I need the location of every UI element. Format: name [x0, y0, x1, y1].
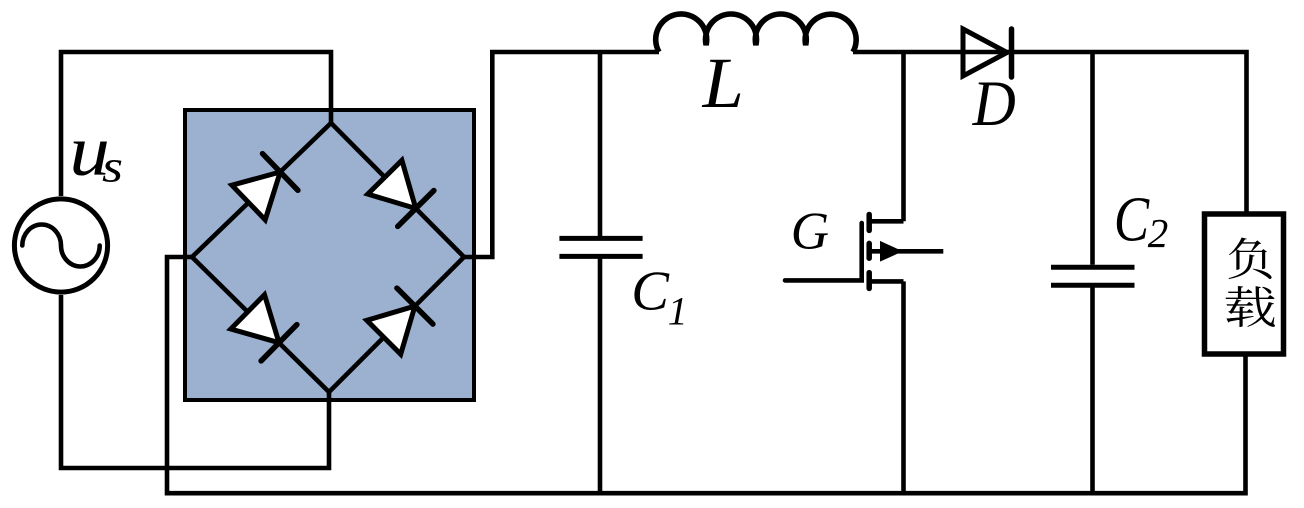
diode D — [963, 29, 1012, 77]
svg-text:C: C — [631, 260, 670, 322]
wire bridge right vertex up to top rail — [464, 52, 659, 257]
inductor L — [656, 14, 856, 52]
svg-text:2: 2 — [1148, 210, 1169, 256]
capacitor C1 top stem — [598, 52, 603, 236]
bridge diode V1 (top-left) — [232, 154, 298, 220]
svg-text:C: C — [1114, 183, 1150, 254]
capacitor C2 — [1051, 267, 1135, 285]
svg-text:s: s — [102, 141, 123, 192]
capacitor C1 bottom stem — [598, 259, 603, 494]
capacitor C2 top stem — [1090, 52, 1095, 265]
AC source u_s — [14, 199, 107, 292]
MOSFET Q1 — [869, 215, 943, 289]
wire source top to bridge top vertex — [61, 52, 331, 196]
load text char zai 载 — [1226, 286, 1275, 327]
wire source bottom to bridge bottom vertex — [61, 295, 329, 468]
bridge arm top-right — [331, 123, 464, 257]
wire top rail from inductor to load top (through diode D) — [853, 52, 1247, 214]
svg-text:1: 1 — [668, 289, 688, 334]
MOSFET gate lead wire and gate bar — [785, 223, 862, 280]
bridge arm bottom-left — [192, 257, 329, 392]
capacitor C2 bottom stem — [1090, 288, 1095, 494]
load text char fu 负 — [1229, 238, 1272, 279]
wire MOSFET drain riser to top rail — [901, 52, 906, 221]
bridge arm bottom-right — [329, 257, 464, 392]
svg-text:L: L — [702, 43, 744, 123]
wire MOSFET source to bottom rail — [901, 281, 906, 493]
bridge diode V4 (bottom-right) — [367, 288, 433, 354]
capacitor C1 — [559, 238, 642, 256]
bridge diode V3 (bottom-left) — [231, 295, 297, 361]
bridge rectifier block — [185, 110, 474, 400]
wire bridge left vertex to bottom rail and load bottom — [167, 257, 1246, 493]
bridge diode V2 (top-right) — [368, 160, 434, 226]
load box — [1205, 214, 1284, 354]
svg-text:G: G — [791, 202, 829, 260]
svg-text:D: D — [972, 68, 1016, 140]
bridge arm top-left — [192, 123, 331, 257]
